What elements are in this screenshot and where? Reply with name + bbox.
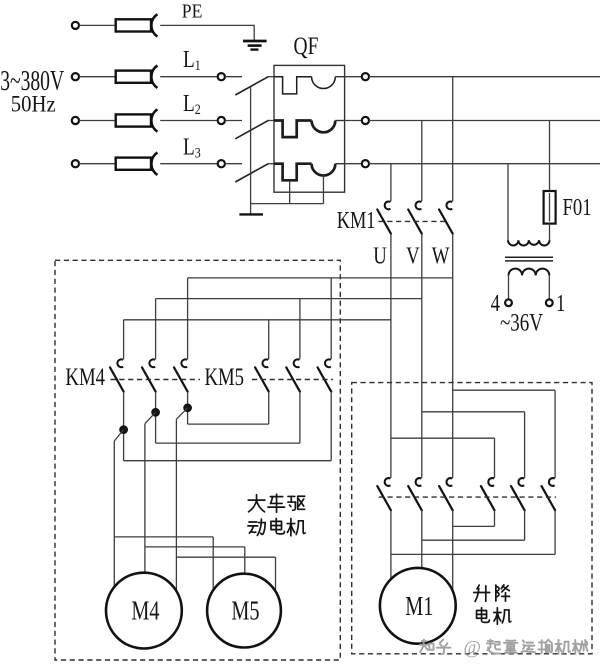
wire hoist A2 lower to M1: [421, 510, 423, 568]
wire PE terminal to fuse: [79, 24, 116, 26]
contact KM4-1 terminal arc: [117, 359, 123, 367]
label hoist motor (sheng jiang / dian ji): [474, 585, 490, 601]
wire F01 to primary: [549, 224, 551, 241]
contact KM4-1 blade: [110, 367, 124, 391]
wire PE drop to earth: [253, 25, 255, 40]
svg-text:50Hz: 50Hz: [11, 92, 56, 117]
transformer T secondary winding: [509, 269, 550, 276]
wire B1 upper: [494, 438, 496, 478]
wire L2 to breaker terminal: [160, 120, 218, 122]
wire L1 blade to QF box: [269, 76, 274, 78]
contact KM2-A1 blade: [377, 486, 391, 510]
contact KM4-3 terminal arc: [181, 359, 187, 367]
wire QF bottom tie: [251, 203, 324, 205]
contact KM2-A2 blade: [408, 486, 422, 510]
wire L2 blade to QF box: [269, 120, 274, 122]
wire L3 blade to QF box: [269, 163, 274, 165]
svg-text:4: 4: [491, 290, 501, 317]
wire secondary left to terminal 4: [508, 275, 510, 299]
svg-text:V: V: [406, 242, 420, 269]
enclosure dashed box cart-drive motors: [55, 260, 340, 660]
fuse FU-L1: [116, 71, 151, 83]
wire QF out L3: [345, 163, 362, 165]
contact KM1-V terminal arc: [416, 202, 422, 210]
motor M4: [106, 573, 182, 649]
op linkage KM5 dashed: [252, 379, 333, 381]
motor M1: [380, 568, 456, 644]
wire hoist tie A-B 3: [453, 525, 495, 527]
contact KM5-3 blade: [318, 367, 332, 391]
terminal 1: [546, 299, 553, 306]
wire L1 terminal to fuse: [79, 76, 116, 78]
wire QF out L1: [345, 76, 362, 78]
supply terminal circle L2: [72, 117, 79, 124]
wire L1 to breaker terminal: [160, 76, 218, 78]
enclosure dashed box hoist motor: [352, 383, 592, 654]
wire B2 upper: [524, 412, 526, 478]
wire motor branch diagonal 2: [145, 412, 156, 423]
wire hoist A1 lower to M1: [390, 510, 392, 579]
op linkage KM1 dashed: [379, 220, 450, 222]
wire tie KM4-2 to KM5: [156, 442, 300, 444]
wire M4 feed 3: [175, 419, 177, 591]
wire QF thermal drop: [322, 175, 324, 204]
ground PE earth symbol: [243, 40, 267, 43]
node QF right terminal L2: [362, 117, 369, 124]
bus L2 to right edge: [369, 120, 600, 122]
breaker QF box: [274, 65, 345, 192]
wire hoist tie A-B 1: [391, 553, 555, 555]
node L1 QF left terminal: [218, 73, 225, 80]
wire M5 feed 3: [275, 557, 277, 591]
contact KM1-U blade: [377, 210, 391, 234]
bus L1 to right edge: [369, 76, 600, 78]
switch blade QF L2: [235, 120, 268, 139]
wire KM4 upper x=187.6: [187, 278, 189, 359]
wire M4 feed 2: [144, 424, 146, 573]
wire L2 terminal to fuse: [79, 120, 116, 122]
wire L3 to breaker terminal: [160, 163, 218, 165]
contact KM5-2 terminal arc: [294, 359, 300, 367]
bus L3 to right edge: [369, 163, 600, 165]
wire KM5-2 lower: [268, 392, 270, 425]
contact KM2-A1 terminal arc: [385, 478, 391, 486]
wire KM4-2 lower: [155, 392, 157, 444]
node QF right terminal L3: [362, 160, 369, 167]
wire KM5-1 lower: [299, 392, 301, 444]
contact KM4-2 blade: [142, 367, 156, 391]
wire hoist B lower 3: [494, 510, 496, 526]
contact KM5-2 blade: [286, 367, 300, 391]
watermark zhihu: [420, 640, 434, 652]
wire W feeder down: [452, 234, 454, 478]
contact KM2-A3 blade: [439, 486, 453, 510]
wire M5 feed 2: [244, 547, 246, 574]
contact KM3-B1 blade: [481, 486, 495, 510]
wire KM5-0 lower: [330, 392, 332, 461]
wire KM5 upper x=268.7: [268, 320, 270, 359]
contact KM3-B3 terminal arc: [549, 478, 555, 486]
wire V feeder down: [421, 234, 423, 478]
svg-text:KM4: KM4: [65, 362, 105, 390]
supply terminal circle L3: [72, 160, 79, 167]
motor M5: [207, 574, 281, 648]
wire KM4 upper x=155.6: [155, 299, 157, 360]
contact KM3-B1 terminal arc: [488, 478, 494, 486]
terminal 4: [505, 299, 512, 306]
wire hoist tie A-B 2: [422, 539, 525, 541]
wire motor branch diagonal 1: [114, 430, 123, 441]
wire QF out L2: [345, 120, 362, 122]
svg-text:M4: M4: [131, 597, 159, 626]
wire W drop from L1: [452, 77, 454, 202]
contact KM2-A3 terminal arc: [446, 478, 452, 486]
wire KM5 upper x=331.2: [330, 278, 332, 359]
svg-text:F01: F01: [563, 194, 592, 221]
connector socket arc L3: [151, 153, 157, 175]
svg-text:M1: M1: [405, 592, 433, 621]
svg-text:KM5: KM5: [205, 362, 245, 390]
supply terminal circle PE: [72, 22, 79, 29]
contact KM4-3 blade: [174, 367, 188, 391]
svg-text:PE: PE: [182, 0, 203, 23]
wire V branch to B2: [422, 411, 525, 413]
contact KM1-W blade: [439, 210, 453, 234]
contact KM5-1 blade: [255, 367, 269, 391]
contact KM3-B3 blade: [542, 486, 556, 510]
fuse FU-L2: [116, 114, 151, 126]
wire KM4-3 lower: [187, 392, 189, 425]
wire L3 terminal to fuse: [79, 163, 116, 165]
wire M5 feed 1: [212, 537, 214, 590]
junction dot KM4-3: [183, 403, 192, 412]
wire hoist A3 lower to M1: [452, 510, 454, 591]
breaker QF trip unit pole 2 (magnetic notch + thermal arc): [274, 121, 312, 138]
wire KM4 upper x=123.6: [123, 320, 125, 359]
fuse FU-L3: [116, 158, 151, 170]
wire KM4-1 lower: [123, 392, 125, 461]
wire L3 stub: [225, 163, 242, 165]
op linkage QF vertical: [250, 87, 252, 215]
wire PE run: [160, 24, 254, 26]
wire F01 feeder from L2: [549, 121, 551, 192]
breaker QF trip unit pole 3 (magnetic notch + thermal arc): [274, 164, 312, 181]
wire hoist B lower 2: [524, 510, 526, 540]
wire L1 stub: [225, 76, 242, 78]
wire transformer primary left from L3: [507, 164, 509, 241]
contact KM2-A2 terminal arc: [416, 478, 422, 486]
wire secondary right to terminal 1: [548, 275, 550, 299]
contact KM3-B2 terminal arc: [518, 478, 524, 486]
wire KM5 upper x=299.9: [299, 299, 301, 360]
transformer T primary winding: [508, 240, 550, 245]
wire U branch to B1: [391, 437, 495, 439]
connector socket arc L1: [151, 66, 157, 88]
svg-text:@: @: [464, 638, 482, 659]
svg-text:KM1: KM1: [337, 207, 376, 234]
op linkage KM4 dashed: [111, 379, 201, 381]
wire U branch to cart box: [124, 319, 391, 321]
svg-text:M5: M5: [231, 597, 259, 626]
wire motor branch diagonal 3: [176, 408, 187, 419]
contact KM5-3 terminal arc: [325, 359, 331, 367]
wire W branch to B3: [453, 389, 555, 391]
contact KM4-2 terminal arc: [149, 359, 155, 367]
wire M5 branch 3: [176, 556, 275, 558]
node QF right terminal L1: [362, 73, 369, 80]
contact KM1-W terminal arc: [446, 202, 452, 210]
transformer T core: [505, 256, 553, 258]
contact KM5-1 terminal arc: [262, 359, 268, 367]
wire QF trip coil drop: [289, 180, 291, 203]
switch blade QF L1: [235, 76, 268, 95]
connector socket arc L2: [151, 109, 157, 131]
wire W branch to cart box: [188, 277, 453, 279]
wire V drop from L2: [421, 121, 423, 202]
supply terminal circle L1: [72, 73, 79, 80]
svg-text:1: 1: [556, 290, 565, 317]
node L2 QF left terminal: [218, 117, 225, 124]
wire L2 stub: [225, 120, 242, 122]
junction dot KM4-2: [151, 408, 160, 417]
op linkage hoist contactors dashed: [379, 496, 556, 498]
fuse FU-PE: [116, 19, 151, 31]
connector socket arc PE: [151, 14, 157, 36]
wire B3 upper: [554, 390, 556, 478]
breaker QF trip unit pole 1 (magnetic notch + thermal arc): [274, 77, 312, 94]
contact KM3-B2 blade: [511, 486, 525, 510]
wire M4 feed 1: [113, 441, 115, 587]
contact KM1-V blade: [408, 210, 422, 234]
svg-text:W: W: [432, 242, 450, 269]
wire U feeder down: [390, 234, 392, 478]
switch blade QF L3: [235, 163, 268, 182]
junction dot KM4-1: [119, 425, 128, 434]
svg-text:U: U: [373, 242, 387, 269]
wire tie KM4-1 to KM5: [124, 460, 332, 462]
wire hoist B lower 1: [554, 510, 556, 554]
wire U drop from L3: [390, 164, 392, 202]
wire M5 branch 1: [114, 536, 213, 538]
wire V branch to cart box: [156, 298, 422, 300]
label cart-drive motors (da che qu / dong dian ji): [248, 495, 265, 512]
svg-text:~36V: ~36V: [500, 308, 543, 336]
node L3 QF left terminal: [218, 160, 225, 167]
wire M5 branch 2: [145, 546, 245, 548]
wire tie KM4-3 to KM5: [188, 423, 269, 425]
fuse F01: [544, 191, 556, 224]
contact KM1-U terminal arc: [385, 202, 391, 210]
ground QF frame bar: [239, 213, 263, 215]
svg-text:QF: QF: [294, 32, 319, 60]
